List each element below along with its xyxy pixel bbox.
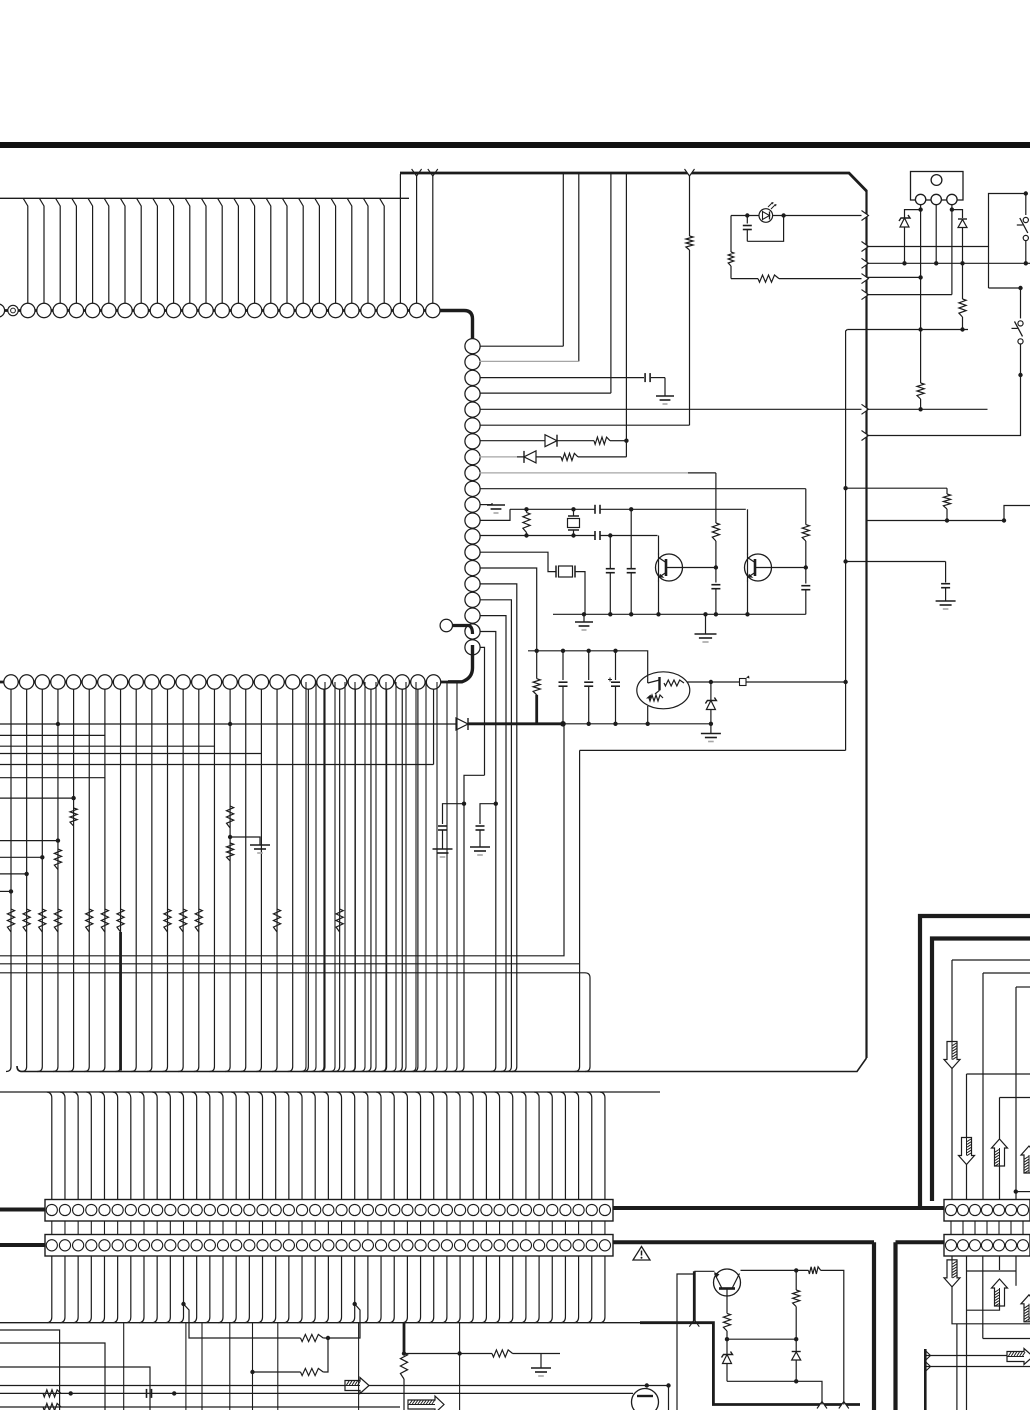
diode D on p7 wire (545, 435, 557, 447)
wire - row 1 pin drop wires (23, 174, 433, 304)
LED D (photo diode) in IC (759, 202, 777, 222)
ground at pin p11 (487, 504, 505, 506)
transistor Q10 (714, 1269, 741, 1296)
wire - long line y=1393.4 with parts (0, 1392, 633, 1394)
wire - thick stub right of CN2 to board box (613, 1240, 874, 1244)
wire - bus y=1092 above connectors (0, 1091, 660, 1093)
wire - y=1355.5 with chevron joint (925, 1355, 1007, 1357)
IC block outline bottom edge (17, 1058, 867, 1072)
block arrow down A5 (944, 1260, 960, 1287)
wire - y=1381.3 link to drop (727, 1381, 822, 1404)
transistor Q1 (656, 554, 683, 581)
wire - bottom partial y=1407 (0, 1406, 400, 1408)
resistor R below rail at x=536.7 with thick lead (536, 651, 538, 679)
wire - vertical x=956.9 below (956, 1324, 958, 1410)
board box B1 outer thick corner (920, 916, 1030, 1208)
capacitor series on lower osc bus (594, 531, 596, 540)
transistor Q11 partial bottom (632, 1389, 659, 1410)
wire - block lower rail y=723.8 thin part (563, 723, 711, 725)
wire - pin p1 to vertical (480, 345, 564, 347)
junction dots lower rail (587, 722, 714, 726)
wire - y=488.2 to outside resistor (846, 487, 947, 489)
resistor R on y=278.6 (758, 275, 779, 282)
block arrow right on y=1385.5 (345, 1378, 369, 1394)
wire - Q2 collector (747, 509, 749, 554)
wire - mesh stub y=753.5 (0, 753, 261, 755)
junction dots on x=845.6 (843, 486, 847, 564)
wire - Q3 output y=682 to the right (687, 681, 845, 683)
thin box edge bottom x=677 (677, 1274, 694, 1410)
wire - row y=278.6 to right edge with resistor (731, 278, 758, 280)
wire - thick stub left of CN1 (0, 1208, 45, 1212)
wire - vertical from pin p15 down to block rail (480, 568, 537, 651)
resistor R on y=1393.4 (43, 1390, 61, 1397)
IC top edge chevron pin at x=689 (685, 169, 695, 176)
wire - corner y=750.4 horizontal (580, 749, 846, 751)
junction dots block rail (535, 649, 618, 653)
block arrow up A3 (992, 1139, 1008, 1166)
wire - LED left branch with small resistor (730, 216, 732, 253)
wire - stub y=1367 (0, 1367, 150, 1410)
wire - B1 edge stub to CN1 right segment (920, 1206, 944, 1210)
wire - bus y=263.3 from IC edge (867, 262, 1030, 264)
resistor R between osc buses (523, 513, 530, 533)
wire - pin p4 to vertical (480, 392, 611, 394)
connector CN2 row 2 (45, 1235, 613, 1257)
wire - thick segment of y=723.8 (468, 722, 563, 725)
board box B5 thick edge x=925.3 (924, 1349, 927, 1410)
wire - pin p7 with diode and resistor (480, 440, 546, 442)
verticals below bottom bus (124, 1323, 460, 1410)
wire - heavy top bus bar (0, 142, 1030, 148)
wire - mesh stub y=746.2 (0, 745, 214, 747)
resistor bank in mesh (7, 909, 343, 932)
wire - Q10 emitter chain down (726, 1296, 728, 1313)
wire - osc bus upper y=509 (510, 508, 595, 510)
wire - vertical from top edge to diode node (625, 173, 627, 457)
wire - y=520.5 from edge with step (867, 520, 1005, 522)
capacitor C at x=563 (562, 651, 564, 680)
block arrow up A4 partial (1021, 1146, 1030, 1173)
chevron joint on bottom bus (689, 1320, 699, 1327)
wire - thick stub right of CN1 (613, 1206, 920, 1210)
wire - y=561.5 to cap-ground (846, 561, 946, 563)
connector CN1 row 1 (45, 1200, 613, 1222)
wire - row 2 pin drop wires (mesh verticals) (6, 689, 434, 1072)
wire - Q1 emitter (658, 581, 660, 615)
wire - bundle from pin p19 (480, 632, 496, 1072)
wire - resistor y=1372 link (253, 1371, 301, 1373)
crystal X2 chain from pin p14 (480, 552, 556, 571)
ground for p3 (656, 395, 674, 397)
wire - mesh stub y=777.7 (0, 777, 105, 779)
capacitor series on y=1393.4 (146, 1389, 148, 1398)
chevrons on bottom thick route (817, 1402, 827, 1409)
wire - LED anode/cathode row y=215.5 (731, 215, 759, 217)
capacitor C to ground at x=442.5 (443, 804, 465, 824)
resistor R on p8 wire (561, 453, 578, 460)
ground at x=541 bottom (540, 1354, 542, 1369)
IC right edge pin chevrons (862, 211, 869, 441)
wire - vertical x=579.6 (575, 750, 580, 1071)
wire - horizontal bus above IC pin row 1 (0, 197, 409, 199)
wire - pin p3 cap to ground (480, 377, 645, 379)
wire - thick IC outline elbow bottom (448, 645, 473, 682)
diode D at x=796 bottom (795, 1339, 797, 1351)
wire - mesh stub y=840.6 (0, 840, 58, 842)
wire - regulator right lead down (951, 205, 953, 295)
big hatched arrow bottom (408, 1396, 444, 1410)
wire - Q2 emitter (747, 581, 749, 615)
block arrow up A7 partial (1021, 1295, 1030, 1322)
resistor R at x=947 (946, 488, 948, 494)
zener diode D at x=904.5 (905, 210, 921, 218)
resistor R on y=1407 (43, 1403, 61, 1410)
wire - thick stub left of CN2 (0, 1243, 45, 1247)
transistor Q2 (745, 554, 772, 581)
block arrow down A1 (944, 1042, 960, 1069)
wire - bundle from pin p20 (480, 647, 485, 775)
wire - A5 continuation to corner (952, 1287, 1030, 1324)
board box B2 inner thick corner (932, 939, 1030, 1202)
connector CN1 right segment (944, 1200, 1030, 1222)
wire - A7 tail jog (1029, 1317, 1030, 1319)
connector CN2 right segment (944, 1235, 1030, 1257)
IC top edge pin chevrons (412, 169, 438, 176)
resistor R pair at x=230 with ground branch (227, 806, 234, 828)
wire - regulator mid lead down (935, 205, 937, 264)
Q3 internals (646, 672, 684, 724)
wire - bundle from pin p16 (480, 584, 517, 1072)
diode D reverse on p8 wire (524, 451, 536, 463)
junction dots on rail (582, 612, 750, 616)
wire - Q1 base to node (666, 567, 716, 569)
wire - thick IC outline elbow top (440, 311, 473, 342)
wire - y=1366.5 with chevron joint (925, 1366, 1030, 1368)
wire - vertical x=845.6 inside IC (846, 330, 848, 751)
capacitor C to rail at x=610 (609, 536, 611, 569)
B+ source mark (740, 679, 747, 686)
wire - link y=1339.2 (727, 1338, 796, 1340)
wire - Q2 base to node (755, 567, 806, 569)
hatched arrow right at bottom right (1007, 1349, 1030, 1365)
IC block outline right edge (865, 190, 867, 1058)
wire - pin p8 with reverse diode and resistor (480, 456, 518, 458)
block arrow down A2 (959, 1138, 975, 1165)
wire - y=1338.5 from x=982.8 (983, 1338, 1030, 1340)
capacitor C at x=588.7 (588, 651, 590, 680)
wire - mesh stub y=724 with diode feeding thick node (0, 723, 456, 725)
wire - mesh stub y=873.9 (0, 873, 27, 875)
wire - y=294.6 from IC edge to right lead (867, 294, 952, 296)
wire - bottom bus y=1322.7 (0, 1322, 694, 1324)
wire - vertical from top edge to pin p2 (578, 173, 580, 361)
wire - thick emphasized vertical x=121 (119, 932, 122, 1071)
wires inside right boxes (952, 960, 1030, 1203)
jog wire 484.5 to 464 (459, 775, 485, 1071)
wire - pin p2 to vertical (gray) (480, 360, 579, 362)
wire - mesh stub y=857.3 (0, 856, 42, 858)
wire - pin p12 up to osc bus (480, 509, 511, 520)
wire - LED cap loop (747, 216, 783, 242)
resistor R below diode at x=962.5 (962, 263, 964, 299)
zener diode D at x=710.9 (710, 682, 712, 700)
block arrow up A6 (992, 1279, 1008, 1306)
IC pin column (circles) (465, 339, 480, 658)
junction dot p7/vertical (624, 439, 628, 443)
ground below zener (710, 724, 712, 734)
switch SW2 (1020, 288, 1022, 318)
voltage regulator U (TO-220 outline) (911, 172, 964, 201)
wire - thick route bottom right (640, 1323, 860, 1405)
wire - osc bus lower y=535.5 from pin p13 (480, 535, 595, 537)
wire - long line y=972.8 (0, 973, 590, 1072)
wire - loop with resistor y=1338 (184, 1304, 301, 1338)
wire - y=329.5 row (847, 329, 968, 331)
wire - mesh stub y=735.4 (0, 734, 105, 736)
warning triangle symbol (633, 1247, 650, 1261)
crystal X1 between osc buses (568, 509, 580, 535)
wire - pin p10 to corner x=805.8 (480, 488, 806, 490)
wire - long line y=1385.5 (0, 1385, 669, 1387)
resistor R on x=59.8 (54, 849, 61, 870)
wire - y=1353.5 with resistor right (404, 1353, 492, 1355)
wire - long line y=963.8 (0, 963, 580, 965)
wire - mesh stub y=798.1 with resistor below (0, 797, 74, 799)
wire - interconnect wires CN1-CN2 (52, 1221, 605, 1235)
wire - y=435.5 outside edge to switch leg (867, 375, 1021, 436)
diode D at x=962.5 (952, 210, 963, 218)
capacitor C to rail at x=631 (630, 509, 632, 568)
IC pin row 1 (circles) (0, 303, 447, 317)
vertical x=716 with R and C (715, 473, 717, 523)
wire - stub y=1343 (0, 1343, 105, 1410)
wire - emitter rail y=614.3 (553, 613, 806, 615)
wire - pin p11 stub to ground (480, 504, 493, 506)
wire - Q10 left lead thick to bus (694, 1270, 714, 1272)
board box B4 thick corner (893, 1242, 897, 1410)
ground at x=260 (230, 837, 260, 845)
diode D on y=724 (456, 718, 468, 730)
wire - bundle from pin p18 (480, 616, 506, 1072)
wire - vertical from top edge to pin p1 (562, 173, 564, 346)
wire - mesh stub y=891.4 (0, 890, 11, 892)
regulator lead circles (915, 194, 957, 204)
junction dots on CN2 wires (181, 1302, 185, 1306)
wire - y=409.3 outside edge (867, 408, 988, 410)
capacitor C under LED (746, 216, 748, 224)
resistor R on x=689 vertical (686, 236, 693, 250)
wire - vertical x=988.5 down to SW2 (988, 247, 990, 289)
wire - pin p5 long to right edge (480, 408, 867, 410)
vertical x=806.8 with R and C (805, 489, 807, 525)
wire - switch SW1 feed (867, 194, 1026, 247)
wire - mesh verticals pack to bottom edge (301, 682, 457, 1072)
wire - Q1 collector (658, 536, 660, 555)
wire - bundle from pin p17 (480, 600, 512, 1072)
ground stub on rail (705, 614, 707, 634)
ground at x=945.6 (936, 600, 956, 602)
wire - long line y=955.8 (0, 724, 564, 956)
wire - Q10 top right with resistor (741, 1269, 809, 1271)
board box B3 thick corner bottom right (872, 1242, 876, 1410)
ground under crystal X2 (583, 614, 585, 622)
wire - pin p9 gray then corner down at x=715.9 (480, 472, 689, 474)
IC special pin circle and thick stub (440, 619, 472, 634)
wire - A6 tail jog (967, 1303, 1000, 1310)
capacitor on p3 wire (644, 373, 646, 382)
capacitor C to ground at x=480 (480, 804, 496, 824)
wire - CN2 drop wires to bottom bus (47, 1256, 605, 1323)
wires below CN2 right (952, 1256, 1016, 1410)
resistor R below Q10 right (795, 1270, 797, 1290)
wire - mesh long y=764.5 (0, 764, 434, 766)
IC pin row 2 (circles) (0, 675, 449, 689)
resistor R on p7 wire (594, 437, 610, 444)
polarized capacitor C+ at x=615.5 (615, 651, 617, 680)
wire - pin p6 to vertical (480, 424, 690, 426)
IC block outline top edge (400, 173, 867, 191)
wire - vertical from top edge chevron through R to pin p6 (689, 176, 691, 236)
switch SW1 (1024, 191, 1028, 195)
wire - left lead continues down with resistor (920, 277, 922, 383)
zener D at x=727 bottom (726, 1339, 728, 1354)
wire - thick drop x=404 with resistor (403, 1323, 406, 1353)
wire - regulator left lead down (920, 205, 922, 278)
wire - connector drop wires (47, 1092, 605, 1199)
wire - y=277.4 from IC edge to left lead (867, 276, 921, 278)
wire - block top rail y=650.8 (528, 651, 648, 672)
capacitor series on upper osc bus (594, 505, 596, 514)
wire - stub y=1330 left (0, 1330, 60, 1410)
dual-element transistor oval Q3 (637, 672, 690, 709)
wire - vertical from top edge to pin p4 (610, 173, 612, 393)
interconnect CN1-CN2 right (951, 1221, 1023, 1235)
junction dots osc buses (524, 507, 633, 538)
